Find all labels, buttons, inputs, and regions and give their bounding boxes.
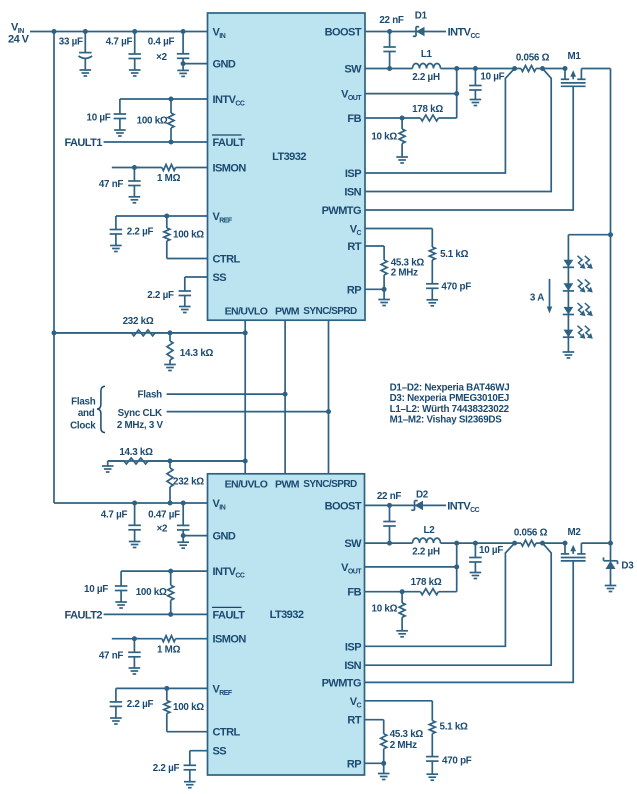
svg-text:EN/UVLO: EN/UVLO: [225, 478, 268, 490]
svg-text:SYNC/SPRD: SYNC/SPRD: [303, 306, 357, 317]
svg-text:M2: M2: [567, 527, 581, 538]
svg-text:LT3932: LT3932: [270, 609, 304, 621]
svg-text:22 nF: 22 nF: [377, 491, 402, 502]
svg-text:2.2 µF: 2.2 µF: [127, 227, 154, 238]
svg-text:ISP: ISP: [345, 641, 361, 653]
svg-text:ISN: ISN: [344, 187, 361, 199]
svg-text:FB: FB: [347, 587, 361, 599]
svg-text:47 nF: 47 nF: [99, 651, 124, 662]
svg-text:CTRL: CTRL: [213, 727, 241, 739]
svg-text:ISMON: ISMON: [213, 634, 247, 646]
svg-text:RT: RT: [347, 241, 361, 253]
svg-text:470 pF: 470 pF: [441, 282, 471, 293]
svg-text:4.7 µF: 4.7 µF: [101, 509, 128, 520]
svg-text:100 kΩ: 100 kΩ: [173, 230, 204, 241]
svg-text:470 pF: 470 pF: [442, 755, 472, 766]
svg-text:10 µF: 10 µF: [87, 113, 111, 124]
svg-text:2 MHz: 2 MHz: [391, 268, 418, 279]
svg-text:EN/UVLO: EN/UVLO: [225, 305, 268, 317]
svg-text:SS: SS: [213, 745, 227, 757]
svg-text:10 kΩ: 10 kΩ: [371, 132, 397, 143]
svg-text:RP: RP: [347, 758, 361, 770]
svg-text:3 A: 3 A: [530, 293, 544, 304]
svg-text:10 kΩ: 10 kΩ: [372, 604, 398, 615]
svg-text:FB: FB: [347, 113, 361, 125]
svg-text:10 µF: 10 µF: [479, 545, 503, 556]
svg-text:INTVCC: INTVCC: [447, 500, 479, 514]
svg-text:0.4 µF: 0.4 µF: [148, 37, 175, 48]
svg-text:0.47 µF: 0.47 µF: [148, 509, 180, 520]
svg-text:100 kΩ: 100 kΩ: [136, 587, 167, 598]
svg-text:PWM: PWM: [275, 305, 300, 317]
svg-text:SYNC/SPRD: SYNC/SPRD: [303, 479, 357, 490]
svg-text:232 kΩ: 232 kΩ: [123, 316, 154, 327]
svg-text:ISMON: ISMON: [213, 163, 247, 175]
svg-text:M1: M1: [567, 51, 581, 62]
svg-text:0.056 Ω: 0.056 Ω: [516, 53, 550, 64]
svg-text:14.3 kΩ: 14.3 kΩ: [180, 348, 214, 359]
svg-text:178 kΩ: 178 kΩ: [412, 104, 443, 115]
svg-text:SW: SW: [344, 64, 362, 76]
svg-text:×2: ×2: [157, 524, 168, 535]
svg-text:47 nF: 47 nF: [99, 179, 124, 190]
svg-text:GND: GND: [213, 59, 236, 71]
svg-text:100 kΩ: 100 kΩ: [137, 116, 168, 127]
svg-text:Flash: Flash: [71, 397, 96, 408]
svg-text:RT: RT: [347, 715, 361, 727]
svg-text:D3: D3: [621, 561, 634, 572]
svg-text:L2: L2: [424, 525, 436, 536]
svg-text:2.2 µF: 2.2 µF: [153, 763, 180, 774]
svg-text:L1: L1: [421, 49, 433, 60]
svg-text:FAULT: FAULT: [213, 137, 246, 149]
svg-text:2.2 µF: 2.2 µF: [147, 290, 174, 301]
svg-text:Clock: Clock: [70, 421, 96, 432]
svg-text:FAULT1: FAULT1: [64, 137, 102, 149]
svg-text:INTVCC: INTVCC: [448, 27, 480, 41]
svg-text:FAULT2: FAULT2: [65, 609, 103, 621]
svg-text:ISP: ISP: [345, 168, 361, 180]
svg-text:178 kΩ: 178 kΩ: [411, 577, 442, 588]
svg-text:24 V: 24 V: [8, 34, 30, 46]
svg-text:2.2 µH: 2.2 µH: [412, 546, 440, 557]
svg-text:GND: GND: [213, 531, 236, 543]
svg-text:10 µF: 10 µF: [84, 584, 108, 595]
svg-text:and: and: [78, 408, 95, 419]
svg-text:10 µF: 10 µF: [480, 72, 504, 83]
svg-text:Flash: Flash: [138, 390, 163, 401]
svg-text:×2: ×2: [156, 52, 167, 63]
svg-text:RP: RP: [347, 284, 361, 296]
svg-text:45.3 kΩ: 45.3 kΩ: [390, 729, 424, 740]
svg-text:Sync CLK: Sync CLK: [118, 408, 162, 419]
svg-text:22 nF: 22 nF: [379, 15, 404, 26]
svg-text:LT3932: LT3932: [272, 151, 306, 163]
svg-text:SS: SS: [213, 272, 227, 284]
svg-text:D1–D2: Nexperia BAT46WJ: D1–D2: Nexperia BAT46WJ: [390, 383, 510, 394]
svg-text:D1: D1: [415, 11, 428, 22]
svg-text:33 µF: 33 µF: [59, 37, 83, 48]
svg-text:2 MHz: 2 MHz: [390, 740, 417, 751]
svg-text:ISN: ISN: [344, 660, 361, 672]
svg-text:D3: Nexperia PMEG3010EJ: D3: Nexperia PMEG3010EJ: [390, 393, 510, 404]
svg-text:2.2 µF: 2.2 µF: [127, 699, 154, 710]
svg-text:5.1 kΩ: 5.1 kΩ: [440, 249, 469, 260]
svg-text:BOOST: BOOST: [325, 27, 362, 39]
svg-text:2.2 µH: 2.2 µH: [412, 72, 440, 83]
svg-text:D2: D2: [416, 490, 429, 501]
svg-text:PWM: PWM: [275, 478, 300, 490]
svg-text:M1–M2: Vishay SI2369DS: M1–M2: Vishay SI2369DS: [390, 414, 503, 425]
svg-text:1 MΩ: 1 MΩ: [157, 173, 181, 184]
svg-text:BOOST: BOOST: [325, 500, 362, 512]
svg-text:4.7 µF: 4.7 µF: [106, 37, 133, 48]
svg-text:232 kΩ: 232 kΩ: [173, 477, 204, 488]
svg-text:L1–L2: Würth 74438323022: L1–L2: Würth 74438323022: [390, 404, 510, 415]
svg-text:PWMTG: PWMTG: [322, 677, 361, 689]
svg-text:SW: SW: [344, 538, 362, 550]
svg-text:100 kΩ: 100 kΩ: [173, 702, 204, 713]
svg-text:FAULT: FAULT: [213, 609, 246, 621]
svg-text:0.056 Ω: 0.056 Ω: [514, 528, 548, 539]
svg-text:CTRL: CTRL: [213, 254, 241, 266]
svg-text:PWMTG: PWMTG: [322, 205, 361, 217]
svg-text:14.3 kΩ: 14.3 kΩ: [119, 447, 153, 458]
svg-text:5.1 kΩ: 5.1 kΩ: [440, 722, 469, 733]
svg-text:1 MΩ: 1 MΩ: [157, 645, 181, 656]
svg-text:2 MHz, 3 V: 2 MHz, 3 V: [117, 420, 164, 431]
